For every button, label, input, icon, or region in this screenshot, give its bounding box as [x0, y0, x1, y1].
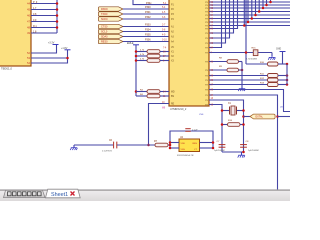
- wire right power stem: [282, 52, 284, 65]
- net flag TXD0: [98, 12, 123, 16]
- wire data bus row 0 horizontal: [209, 1, 290, 3]
- bus wire rising off top: [56, 0, 58, 33]
- wire crystal lead left: [222, 110, 229, 112]
- ground stem reset: [73, 145, 75, 148]
- wire U2 pin row 3: [31, 15, 57, 17]
- wire row R12: [209, 79, 268, 81]
- capacitor C7: [219, 145, 226, 148]
- wire data bus row 5 horizontal: [209, 18, 290, 20]
- wire XTAL1: [209, 100, 244, 152]
- wire data bus row 6 horizontal: [209, 21, 290, 23]
- wire resistor to U1: [160, 51, 169, 53]
- net flag SDA0: [98, 34, 123, 38]
- wire to gnd corner: [271, 53, 273, 57]
- resistor R14: [228, 123, 241, 127]
- wire pin row power B: [31, 58, 68, 63]
- junction EXTAL: [242, 115, 245, 118]
- wire addr row 0: [209, 0, 238, 29]
- power symbol +1.8V: [65, 49, 71, 51]
- wire U3 pin VDD: [170, 142, 179, 144]
- wire U2 pin row 1: [31, 3, 57, 5]
- net flag RES0: [98, 39, 123, 43]
- wire addr row 3: [209, 0, 226, 43]
- wire resistor to U1 low: [160, 95, 169, 97]
- wire rail to resistor: [136, 60, 147, 62]
- wire RES# from U1: [149, 104, 170, 146]
- wire addr row 1: [209, 0, 234, 33]
- junction bus row 3: [258, 10, 261, 13]
- power symbol right: [280, 51, 286, 53]
- wire resistor to U1: [160, 55, 169, 57]
- ground crystal stem: [241, 152, 243, 155]
- wire to EXTAL flag: [244, 116, 251, 118]
- resistor R7 reset: [155, 143, 168, 147]
- wire U2 pin row 2: [31, 9, 57, 11]
- wire data bus row 7 horizontal: [209, 25, 290, 27]
- resistor R11: [268, 74, 279, 78]
- capacitor C5 on rail: [185, 129, 190, 132]
- wire rail to resistor: [136, 55, 147, 57]
- net flag RXD0: [98, 7, 123, 11]
- junction bus row 0: [269, 1, 272, 4]
- junction on bus: [56, 2, 59, 5]
- wire data bus row 2 horizontal: [209, 7, 290, 9]
- resistor pull row y=51.5: [147, 50, 160, 54]
- active tab Sheet1: [46, 189, 81, 198]
- junction U3 left bottom: [169, 147, 172, 150]
- wire resistor to rail: [168, 144, 170, 146]
- wire data bus row 1 vertical: [266, 0, 268, 5]
- junction pullup a: [286, 63, 289, 66]
- ground mode: [268, 55, 275, 60]
- wire flag SCK0 to U1: [123, 18, 169, 20]
- wire R12 out: [278, 79, 287, 81]
- junction gnd rail: [241, 69, 244, 72]
- junction R14 right: [242, 123, 245, 126]
- wire flag RXD0 to U1: [123, 8, 169, 10]
- junction flag right: [276, 115, 279, 118]
- wire flag RES0 to U1: [123, 41, 169, 43]
- wire U3 pin RES out: [200, 142, 214, 144]
- wire U2 pin row 5: [31, 27, 57, 29]
- wire R13 out: [278, 84, 287, 86]
- junction bus row 2: [262, 7, 265, 10]
- net flag SCK0: [98, 17, 123, 21]
- wire U3 top rail: [170, 131, 213, 149]
- junction R14 left: [221, 123, 224, 126]
- junction X1 right: [242, 109, 245, 112]
- wire U3 pin CT: [200, 147, 214, 149]
- wire flag TXD0 to U1: [123, 13, 169, 15]
- junction U3 right top: [212, 141, 215, 144]
- wire resistor to U1 low: [160, 91, 169, 93]
- wire row long vertical: [209, 95, 278, 191]
- net flag EXTAL: [250, 114, 275, 119]
- wire data bus row 3 horizontal: [209, 11, 290, 13]
- junction on bus: [56, 26, 59, 29]
- wire data bus row 5 vertical: [251, 0, 253, 19]
- wire data bus row 4 vertical: [255, 0, 257, 15]
- separator line: [0, 189, 290, 190]
- wire crystal bottom rail: [222, 151, 244, 153]
- junction on bus: [56, 14, 59, 17]
- junction power net: [66, 57, 69, 60]
- IC U1 (main MCU): [169, 0, 209, 106]
- wire power rail stem: [135, 45, 137, 96]
- junction U3 left top: [169, 141, 172, 144]
- wire row R11: [209, 75, 268, 77]
- resistor R13: [268, 83, 279, 87]
- wire long row MODE: [209, 52, 272, 54]
- wire flag to right edge: [278, 116, 291, 118]
- wire vertical x=246 from top: [245, 0, 247, 64]
- resistor R8: [227, 60, 239, 64]
- junction on bus: [56, 8, 59, 11]
- wire R9 to vert: [239, 69, 243, 71]
- resistor pull row y=91.5: [147, 90, 160, 94]
- wire rail to resistor: [136, 51, 147, 53]
- wire row y=70 to resistor: [209, 69, 227, 71]
- junction bus row 7: [243, 24, 246, 27]
- net flag CTS0: [98, 24, 123, 28]
- junction U3 right bottom: [212, 147, 215, 150]
- junction R11: [286, 74, 289, 77]
- wire data bus row 2 vertical: [262, 0, 264, 8]
- IC U2 (left MCU peripheral, partially off-canvas): [0, 0, 31, 66]
- resistor R12: [268, 78, 279, 82]
- wire pin row power A: [31, 57, 68, 59]
- junction reset net: [147, 144, 150, 147]
- capacitor C8: [240, 145, 247, 148]
- wire flag SDA0 to U1: [123, 36, 169, 38]
- wire flag CTS0 to U1: [123, 26, 169, 28]
- junction bus row 4: [254, 14, 257, 17]
- resistor R10: [268, 62, 279, 66]
- wire pin to power: [31, 45, 57, 53]
- wire power stem: [67, 50, 69, 58]
- ferrite bead FB1: [253, 50, 258, 56]
- junction reset into rail: [169, 144, 172, 147]
- wire resistor to U1: [160, 60, 169, 62]
- junction on rail low: [135, 90, 138, 93]
- junction bus row 5: [251, 17, 254, 20]
- wire R11 out: [278, 75, 287, 77]
- wire row exits right: [209, 90, 290, 112]
- ground crystal: [238, 153, 245, 158]
- wire row R13: [209, 84, 268, 86]
- wire R14 lead right: [240, 124, 244, 126]
- wire from top into U1: [133, 0, 169, 5]
- wire data bus row 0 vertical: [270, 0, 272, 2]
- resistor R9: [227, 68, 239, 72]
- junction bus row 6: [247, 21, 250, 24]
- wire data bus row 3 vertical: [258, 0, 260, 12]
- wire U2 pin row 6: [31, 32, 57, 34]
- wire vertical pullup bus x=287: [286, 64, 288, 85]
- wire crystal lead right: [237, 110, 244, 112]
- wire rail to resistor low: [136, 91, 147, 93]
- wire rail to resistor low: [136, 95, 147, 97]
- wire reset left segment: [74, 144, 113, 146]
- ground rail right: [238, 87, 245, 92]
- wire vertical gnd rail x=242: [241, 62, 243, 89]
- wire flag SCL0 to U1: [123, 31, 169, 33]
- junction crystal bottom: [242, 151, 245, 154]
- wire data bus row 1 horizontal: [209, 4, 290, 6]
- wire U3 pin VSS: [170, 147, 179, 149]
- IC U3 body: [179, 139, 200, 152]
- wire addr row 2: [209, 0, 230, 38]
- net flag SCL0: [98, 29, 123, 33]
- inactive tab text (CJK simulated): [8, 192, 12, 196]
- wire data bus row 4 horizontal: [209, 14, 290, 16]
- crystal X1: [230, 106, 237, 115]
- ground reset: [70, 146, 77, 151]
- wire R8 to vert: [239, 61, 243, 63]
- wire addr row 4: [209, 0, 222, 48]
- junction bus row 1: [265, 4, 268, 7]
- power symbol +3.3V: [53, 44, 59, 46]
- resistor pull row y=96: [147, 94, 160, 98]
- junction on rail: [135, 50, 138, 53]
- tab close X: [71, 192, 75, 196]
- wire pullup to vert: [278, 63, 287, 65]
- wire XTAL2: [209, 105, 222, 153]
- wire reset mid segment: [117, 144, 155, 146]
- junction on bus: [56, 20, 59, 23]
- resistor pull row y=60.5: [147, 59, 160, 63]
- wire data bus row 7 vertical: [243, 0, 245, 26]
- junction on rail: [135, 55, 138, 58]
- junction R12: [286, 79, 289, 82]
- svg-text:Sheet1: Sheet1: [51, 192, 68, 198]
- wire R14 lead left: [222, 124, 228, 126]
- junction on rail: [135, 59, 138, 62]
- junction R13: [286, 83, 289, 86]
- junction mode net: [245, 51, 248, 54]
- wire row y=61.5 to resistor: [209, 61, 227, 63]
- resistor pull row y=56: [147, 54, 160, 58]
- wire pullup row: [246, 63, 268, 65]
- wire U2 pin row 4: [31, 21, 57, 23]
- power symbol rail: [133, 44, 139, 46]
- wire data bus row 6 vertical: [247, 0, 249, 22]
- junction X1 left: [221, 109, 224, 112]
- capacitor C6 (series on reset line): [114, 142, 117, 149]
